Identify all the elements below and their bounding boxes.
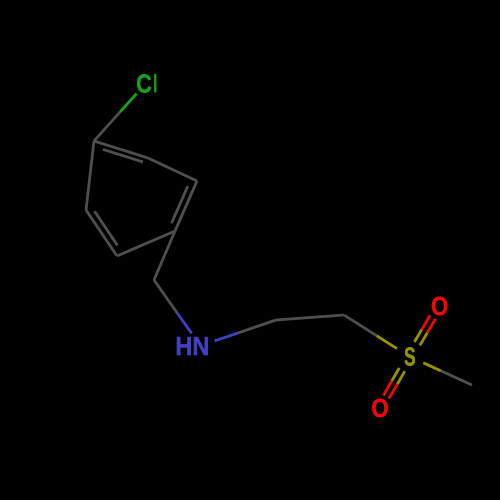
svg-text:HN: HN bbox=[175, 333, 209, 361]
svg-text:C: C bbox=[136, 70, 152, 99]
svg-text:S: S bbox=[404, 342, 416, 371]
svg-text:O: O bbox=[371, 395, 388, 424]
svg-text:O: O bbox=[431, 292, 448, 321]
